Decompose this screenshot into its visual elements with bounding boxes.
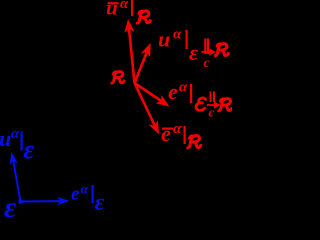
svg-text:α: α — [81, 183, 89, 198]
label u-bar^alpha|_R — [106, 0, 133, 20]
svg-text:c: c — [209, 105, 215, 120]
svg-text:α: α — [11, 126, 20, 142]
label e^alpha|_eps (blue) — [71, 183, 105, 217]
vector e arrow (red, down-right) — [135, 83, 170, 107]
node label script-R at red origin — [112, 71, 124, 83]
vector e-bar arrow (red, down) — [135, 83, 160, 135]
svg-text:c: c — [204, 56, 211, 71]
svg-text:e: e — [168, 79, 178, 104]
svg-text:e: e — [161, 121, 171, 146]
vector u arrow (blue, up) — [10, 152, 21, 202]
vector u-bar arrow (red, up) — [124, 19, 134, 83]
label u^alpha|_(eps-to-R) — [158, 27, 198, 66]
node epsilon (blue origin dot) — [19, 200, 23, 204]
svg-text:ε: ε — [95, 190, 105, 216]
svg-text:α: α — [173, 27, 182, 43]
svg-text:e: e — [71, 184, 80, 205]
vector e arrow (blue, right) — [21, 197, 71, 205]
label e^alpha|_(E-to-R) — [168, 79, 192, 104]
svg-text:ε: ε — [189, 40, 198, 65]
svg-text:ε: ε — [4, 191, 17, 217]
transport stack ||/arrow/c (upper) — [202, 39, 215, 72]
transport stack ||/arrow/c (lower) — [207, 92, 220, 120]
svg-text:u: u — [158, 27, 170, 52]
label e-bar^alpha|_R — [161, 121, 186, 146]
label u^alpha|_eps (blue) — [0, 126, 35, 164]
svg-text:α: α — [173, 121, 182, 137]
svg-text:u: u — [0, 126, 11, 151]
vector u arrow (red, up-right) — [135, 43, 151, 83]
svg-text:α: α — [120, 0, 129, 12]
svg-text:α: α — [179, 80, 188, 96]
svg-text:ε: ε — [24, 135, 35, 164]
